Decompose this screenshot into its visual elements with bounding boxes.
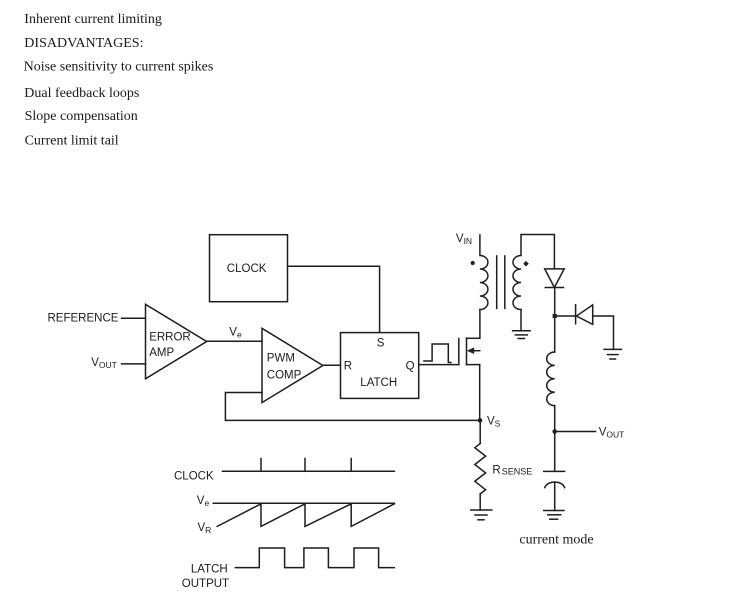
svg-text:REFERENCE: REFERENCE [48, 312, 119, 324]
wire error amp output to PWM comp (node Ve) [207, 340, 262, 342]
transformer T1 secondary phase dot [523, 261, 529, 267]
ground (transformer secondary) [513, 331, 531, 339]
wire VOUT node to label [555, 431, 596, 433]
wire current sense feedback VS to PWM comp [225, 393, 480, 421]
wire VOUT node to capacitor [554, 432, 556, 472]
op-amp U1 ERROR AMP [146, 304, 207, 379]
diode D2 freewheel [576, 305, 593, 325]
transformer T1 primary winding [480, 235, 488, 310]
wire VOUT to error amp - input [122, 363, 146, 365]
svg-text:CLOCK: CLOCK [227, 263, 267, 275]
wire capacitor to ground [554, 483, 556, 511]
comparator U2 PWM COMP [262, 328, 323, 402]
wire D2 anode to ground [593, 316, 614, 349]
transformer T1 core [497, 256, 505, 309]
wire node to inductor [554, 316, 556, 352]
wire MOSFET drain to transformer primary [479, 310, 481, 339]
transformer T1 secondary winding [513, 235, 554, 310]
clock tick 2 [304, 459, 306, 472]
svg-text:OUTPUT: OUTPUT [182, 578, 229, 590]
clock generator box CLOCK [210, 235, 288, 302]
wire latch Q output to MOSFET gate [419, 364, 459, 366]
svg-text:Slope compensation: Slope compensation [25, 109, 138, 124]
svg-text:COMP: COMP [267, 369, 302, 381]
svg-text:LATCH: LATCH [191, 563, 228, 575]
svg-text:AMP: AMP [149, 347, 174, 359]
svg-text:S: S [377, 338, 385, 350]
gate drive pulse symbol [424, 344, 451, 363]
waveform VR sawtooth [217, 504, 394, 527]
svg-text:Noise sensitivity to current s: Noise sensitivity to current spikes [24, 60, 214, 75]
wire secondary bottom to ground [520, 310, 522, 331]
svg-text:current mode: current mode [519, 533, 593, 548]
ground (diode D2) [604, 349, 621, 359]
svg-text:PWM: PWM [267, 353, 295, 365]
svg-text:Inherent current limiting: Inherent current limiting [24, 12, 162, 27]
clock tick 3 [350, 459, 352, 472]
svg-text:Dual feedback loops: Dual feedback loops [24, 86, 139, 101]
node rectifier output junction [553, 314, 557, 318]
svg-text:Current limit tail: Current limit tail [25, 133, 119, 148]
svg-text:Q: Q [406, 361, 415, 373]
node VOUT junction [552, 429, 557, 434]
wire CLOCK output to latch S input [288, 266, 380, 332]
waveform clock baseline [223, 470, 395, 472]
wire REFERENCE to error amp + input [122, 317, 146, 319]
svg-text:SENSE: SENSE [502, 467, 533, 477]
wire resistor to ground [479, 494, 481, 510]
capacitor C1 output filter [544, 471, 565, 487]
wire D1 cathode to output node [554, 288, 556, 317]
ground (RSENSE) [471, 510, 492, 520]
svg-text:LATCH: LATCH [360, 377, 397, 389]
svg-text:DISADVANTAGES:: DISADVANTAGES: [24, 36, 143, 51]
waveform latch output [235, 548, 394, 568]
wire MOSFET source to VS node [479, 365, 481, 421]
diode D1 rectifier [545, 269, 565, 288]
node VS [478, 418, 483, 423]
transistor Q1 power MOSFET [459, 338, 480, 365]
wire PWM comp output to latch R input [323, 364, 341, 366]
latch U3 LATCH box [341, 333, 419, 399]
ground (capacitor C1) [544, 511, 564, 520]
waveform Ve level line [213, 502, 394, 504]
clock tick 1 [260, 459, 262, 472]
inductor L1 [547, 352, 555, 406]
svg-text:CLOCK: CLOCK [174, 471, 214, 483]
svg-text:ERROR: ERROR [149, 331, 191, 343]
wire inductor to VOUT node [554, 406, 556, 432]
svg-text:R: R [492, 465, 500, 477]
svg-text:R: R [344, 361, 352, 373]
transformer T1 primary phase dot [471, 261, 475, 265]
resistor RSENSE [475, 444, 533, 494]
wire node to diode D2 [555, 315, 576, 317]
wire VS to sense resistor [479, 420, 481, 443]
